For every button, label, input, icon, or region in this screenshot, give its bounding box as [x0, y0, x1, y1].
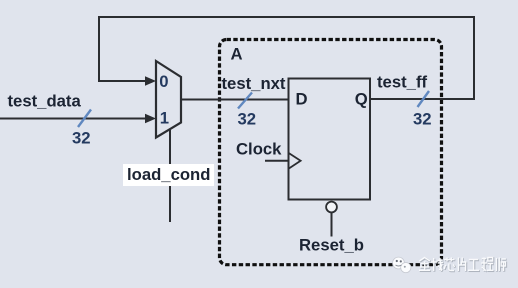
- svg-text:test_data: test_data: [8, 91, 82, 110]
- svg-text:0: 0: [159, 72, 168, 91]
- svg-text:A: A: [231, 45, 243, 64]
- svg-text:load_cond: load_cond: [127, 165, 210, 184]
- svg-text:32: 32: [413, 110, 432, 129]
- svg-text:32: 32: [238, 110, 257, 129]
- svg-text:Q: Q: [355, 90, 368, 109]
- svg-text:32: 32: [72, 129, 91, 148]
- svg-text:test_nxt: test_nxt: [222, 74, 286, 93]
- svg-text:Reset_b: Reset_b: [299, 236, 364, 255]
- svg-text:test_ff: test_ff: [377, 72, 428, 91]
- svg-text:D: D: [296, 90, 308, 109]
- svg-text:1: 1: [160, 109, 169, 128]
- svg-text:Clock: Clock: [236, 140, 282, 159]
